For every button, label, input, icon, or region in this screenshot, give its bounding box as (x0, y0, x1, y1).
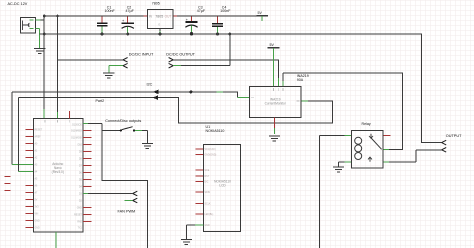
IC A1 Arduino Nano (34, 119, 84, 233)
wire fan pwm pin2 stub (124, 200, 132, 202)
svg-text:RST: RST (205, 176, 210, 178)
connector FAN PWM pin2 (arrow) (133, 198, 138, 203)
Arduino left pin stubs (26, 130, 34, 228)
svg-text:47µF: 47µF (126, 9, 135, 13)
svg-text:100nF: 100nF (220, 9, 231, 13)
svg-text:7805: 7805 (152, 1, 160, 5)
ground (relay) (333, 167, 344, 172)
regulator 7805 (148, 1, 174, 35)
svg-text:OUTPUT: OUTPUT (446, 134, 462, 138)
I2C arrow on line B (153, 95, 158, 100)
svg-text:SCLK: SCLK (205, 204, 211, 206)
ground (switch) (142, 143, 153, 148)
ground (Nokia) (181, 239, 192, 244)
svg-text:RESET: RESET (35, 130, 43, 132)
svg-text:VCC(3.3V): VCC(3.3V) (205, 149, 216, 151)
wire I2C SDA (line A) (12, 92, 238, 98)
pin stub relay NC (unconnected) (383, 135, 390, 137)
switch S1 (120, 127, 136, 132)
wire relay NO to output (383, 161, 389, 163)
pin stubs of off-canvas part (left edge) (5, 177, 11, 191)
svg-text:D/C: D/C (205, 182, 209, 184)
svg-text:D11/MOSI: D11/MOSI (71, 138, 82, 140)
pin stub top (unconnected) (68, 111, 70, 119)
Nokia left pin stubs (195, 149, 203, 214)
svg-text:LED(BL): LED(BL) (205, 214, 214, 216)
Arduino left pins A4/A5 (connected) (24, 165, 34, 172)
svg-text:GND(GND): GND(GND) (205, 155, 217, 157)
wire joint (green) on line A (217, 91, 224, 93)
wire relay common (green stub) (383, 149, 389, 151)
svg-text:Connect/Disc outputs: Connect/Disc outputs (105, 119, 141, 123)
Arduino right pin labels (71, 125, 82, 230)
wire relay coil- to ground (345, 161, 352, 163)
Arduino bottom pin (connected, cut off) (55, 232, 57, 248)
Arduino left pin labels (35, 130, 43, 230)
connector OUTPUT pin1 (arrow) (442, 140, 447, 145)
capacitor C1 (97, 5, 116, 35)
svg-text:(Rev3.0): (Rev3.0) (52, 170, 64, 174)
svg-text:SDIN: SDIN (205, 192, 211, 194)
wire I2C SCL (line B) (19, 98, 333, 124)
svg-text:3V3: 3V3 (35, 207, 40, 209)
wire 12V down to Arduino VIN (43, 16, 45, 109)
wire to switch left contact (102, 130, 120, 132)
capacitor C2 (polarized) (122, 5, 135, 35)
wire 5V top rail (173, 15, 177, 17)
svg-text:47µF: 47µF (197, 9, 206, 13)
svg-text:GND: GND (35, 221, 40, 223)
junction on line A (189, 90, 192, 93)
svg-text:AC-DC 12V: AC-DC 12V (8, 2, 28, 6)
Arduino right pin stubs (83, 131, 91, 222)
wire DC/DC output gnd to rail (173, 65, 181, 67)
wire Arduino D3 to fan pwm (83, 193, 88, 195)
svg-text:GND: GND (205, 225, 210, 227)
svg-text:D10: D10 (78, 145, 83, 147)
svg-text:90A: 90A (297, 78, 304, 82)
wire INA219 vin- to relay common (282, 73, 284, 81)
wire jack tip to 12V rail (35, 19, 40, 21)
power jack J1 (21, 18, 36, 34)
connector DC/DC output pin1 (arrow) (169, 58, 174, 63)
svg-text:D13/SCK: D13/SCK (72, 125, 82, 127)
svg-text:OUT: OUT (165, 15, 172, 19)
IC U2 INA219 current monitor (250, 87, 302, 118)
junction (43, 15, 46, 18)
svg-text:7805: 7805 (155, 15, 163, 19)
wire DC/DC output to INA219 vin+ (173, 60, 278, 78)
svg-text:I2C: I2C (147, 82, 153, 86)
wire Arduino D13 to switch (83, 123, 88, 125)
svg-text:DC/DC OUTPUT: DC/DC OUTPUT (166, 52, 195, 56)
wire 12V top rail (44, 15, 143, 17)
svg-text:VIN: VIN (35, 214, 39, 216)
ground (DC/DC input) (103, 73, 114, 78)
ground (INA219) (269, 136, 280, 141)
svg-text:G: G (158, 23, 160, 27)
svg-text:100nF: 100nF (105, 9, 116, 13)
svg-text:Relay: Relay (362, 122, 371, 126)
svg-text:5V: 5V (258, 11, 263, 15)
svg-text:AREF: AREF (35, 136, 42, 139)
wire 12V down to Arduino 5V pin (57, 16, 59, 112)
wire GND bottom rail (40, 34, 442, 143)
svg-text:5V: 5V (270, 43, 275, 47)
wire switch to ground (135, 130, 142, 132)
svg-text:RX0: RX0 (77, 222, 82, 224)
svg-text:CurrentMonitor: CurrentMonitor (265, 102, 287, 106)
wire jack sleeve down (35, 29, 39, 49)
connector FAN PWM pin1 (arrow) (133, 191, 138, 196)
capacitor C3 (polarized) (185, 5, 205, 35)
svg-text:Part2: Part2 (96, 99, 105, 103)
svg-text:LCD: LCD (219, 184, 226, 188)
svg-text:GND: GND (77, 208, 82, 210)
svg-text:SCE: SCE (205, 170, 210, 172)
power symbol 5V (INA219) (268, 43, 280, 86)
connector DC/DC input pin2 (arrow) (123, 63, 128, 68)
wire INA219 gnd pin (273, 118, 275, 129)
capacitor C4 (212, 5, 231, 35)
power symbol 5V (rail end) (257, 11, 268, 21)
wire 12V branch to DC/DC input (58, 59, 124, 61)
connector DC/DC input pin1 (arrow) (123, 58, 128, 63)
junction (rail start) (43, 33, 46, 36)
wire gnd to DC/DC input pin2 (109, 66, 123, 73)
svg-text:NOKIA5110: NOKIA5110 (206, 129, 225, 133)
relay K1 (352, 131, 384, 169)
svg-text:GND: GND (35, 228, 40, 230)
svg-text:DC/DC INPUT: DC/DC INPUT (129, 52, 154, 56)
svg-text:5V: 5V (35, 200, 38, 202)
ground (under jack) (34, 49, 46, 54)
IC U1 Nokia5110 LCD (204, 145, 241, 232)
svg-text:RESET: RESET (74, 215, 82, 217)
junction (56, 15, 59, 18)
wire Nokia GND to ground (195, 224, 203, 226)
svg-text:D12/MISO: D12/MISO (71, 131, 82, 133)
connector DC/DC output pin2 (arrow) (169, 63, 174, 68)
Nokia pin labels (205, 149, 217, 227)
svg-text:FAN PWM: FAN PWM (118, 209, 136, 213)
wire relay coil+ down-left (cut off) (345, 135, 352, 137)
svg-text:TX1: TX1 (78, 228, 83, 230)
I2C arrow on line A (153, 90, 158, 95)
connector OUTPUT pin2 (arrow) (442, 148, 447, 153)
